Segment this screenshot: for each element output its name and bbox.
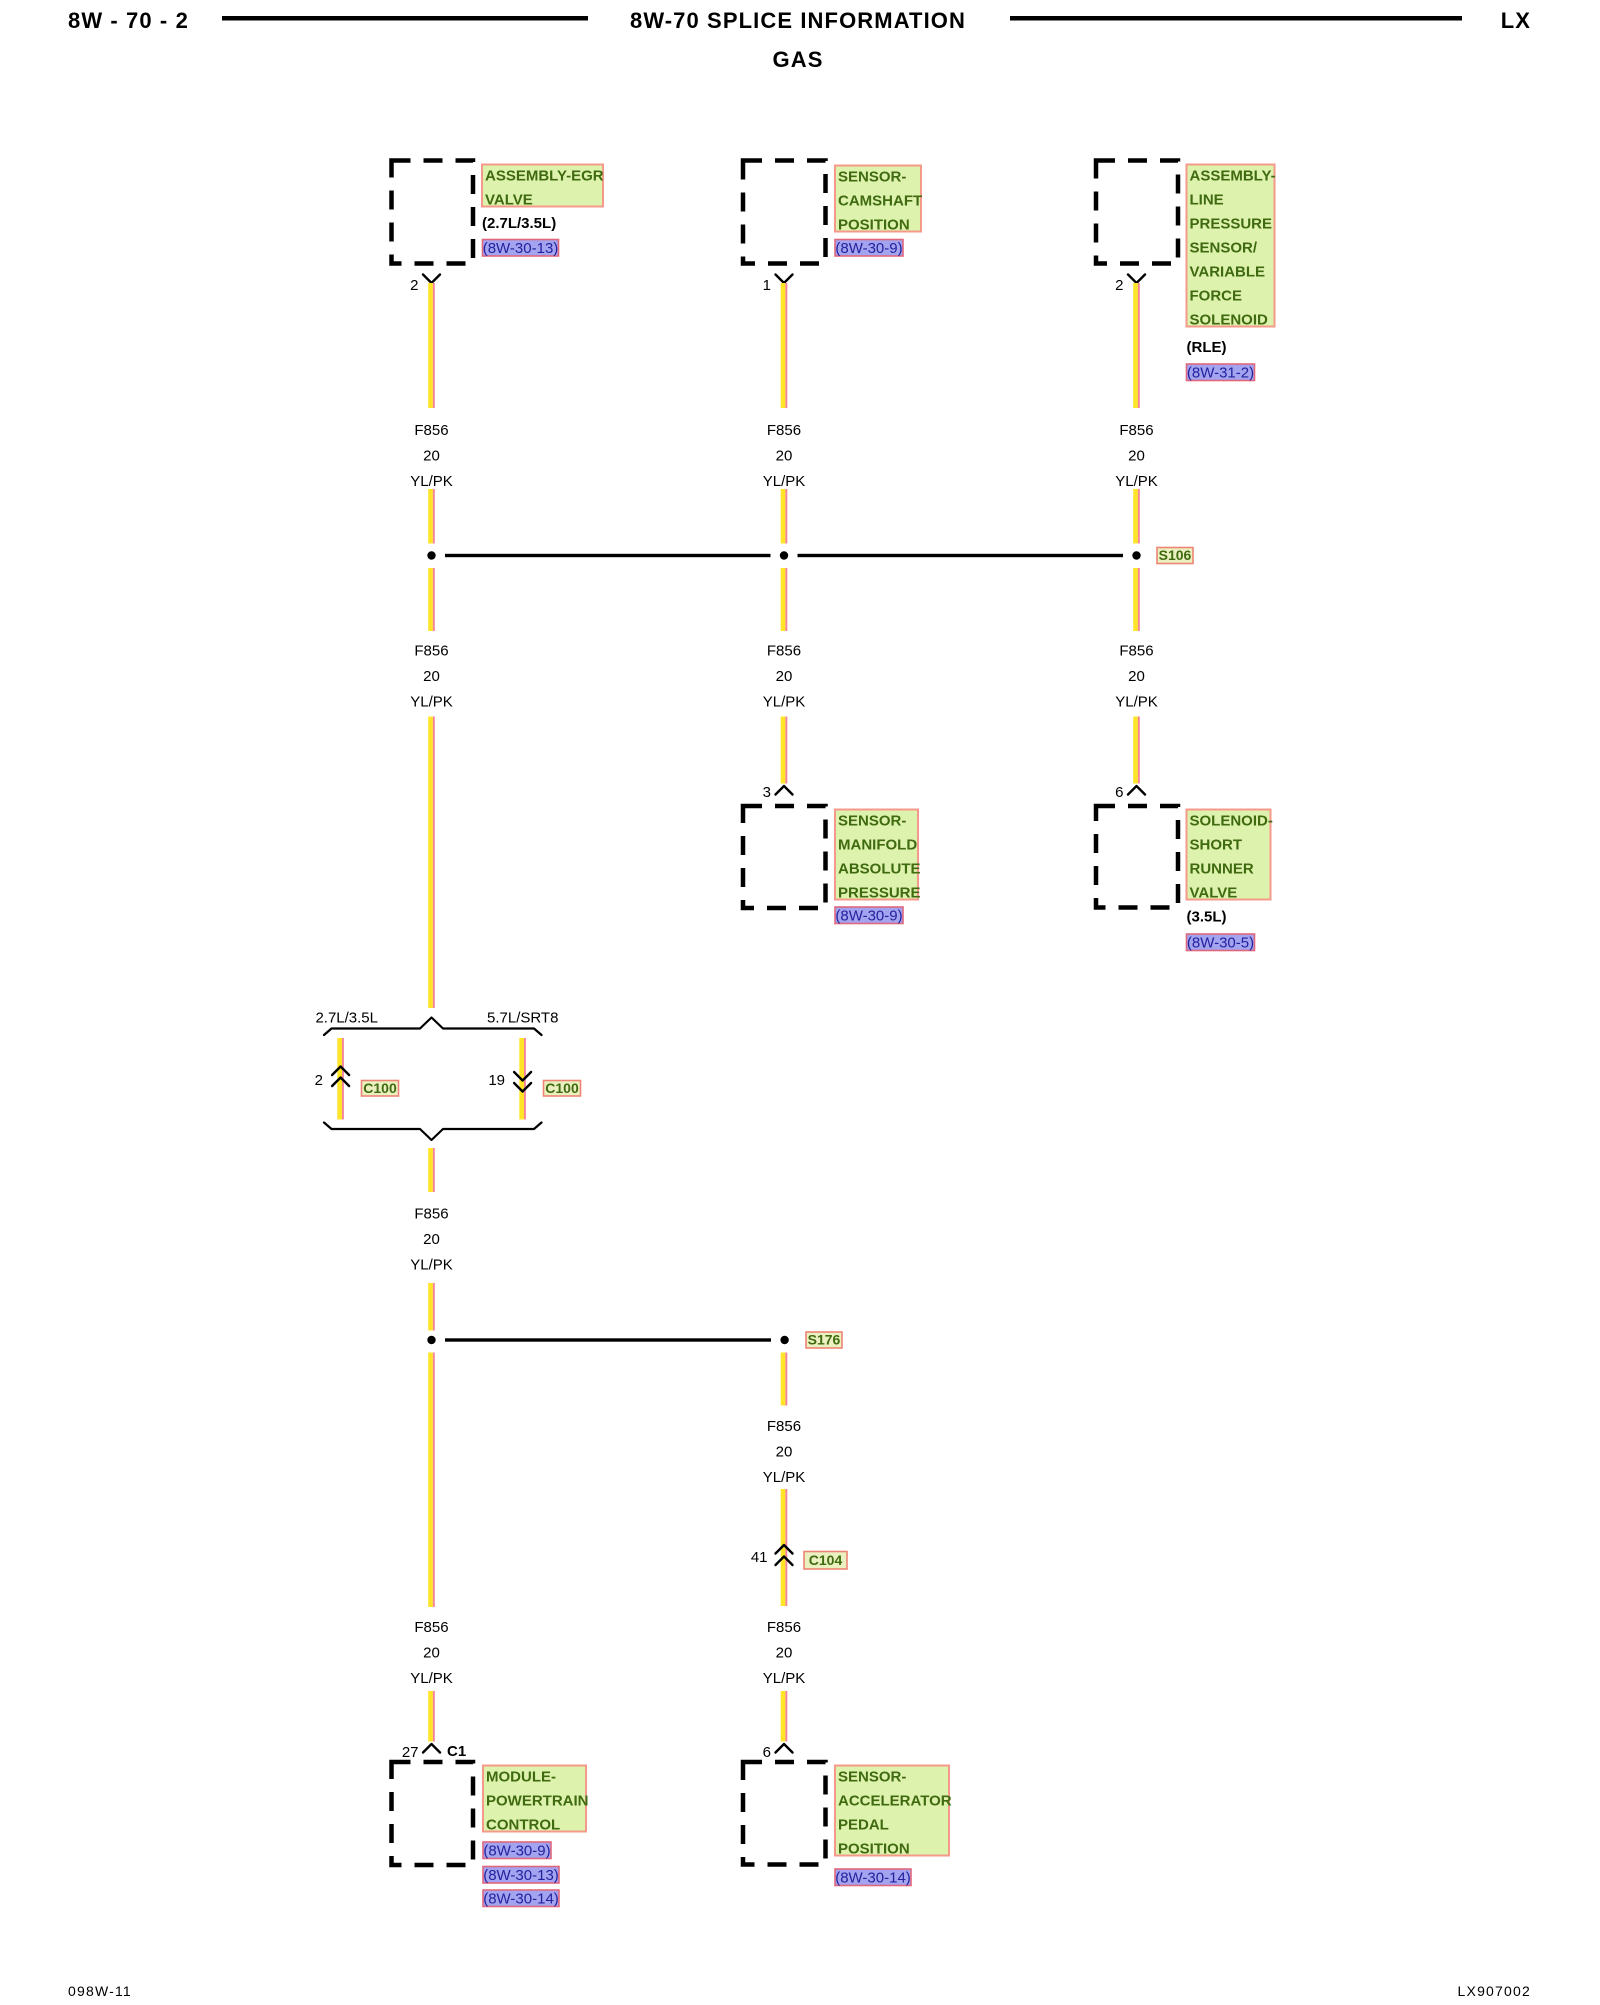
svg-text:ACCELERATOR: ACCELERATOR <box>838 1793 952 1810</box>
connector C100 right double chevron <box>514 1072 531 1092</box>
svg-text:ASSEMBLY-EGR: ASSEMBLY-EGR <box>485 168 604 185</box>
wire label col3 block2 <box>1115 643 1158 711</box>
svg-text:ASSEMBLY-: ASSEMBLY- <box>1190 168 1276 185</box>
svg-text:SOLENOID: SOLENOID <box>1190 312 1269 329</box>
svg-text:GAS: GAS <box>773 47 824 72</box>
svg-text:5.7L/SRT8: 5.7L/SRT8 <box>487 1010 558 1027</box>
svg-text:19: 19 <box>488 1072 505 1089</box>
reference chip 8W-30-9 MAP <box>835 907 903 925</box>
svg-text:SHORT: SHORT <box>1190 837 1243 854</box>
svg-text:SENSOR-: SENSOR- <box>838 169 906 186</box>
reference chip 8W-30-9 camshaft <box>835 240 903 258</box>
component label line pressure sensor <box>1187 165 1276 329</box>
svg-text:VALVE: VALVE <box>485 192 533 209</box>
wire label col1 block5 <box>410 1619 453 1687</box>
svg-text:6: 6 <box>1115 784 1123 801</box>
wire F856 col3 seg4 <box>1133 717 1140 784</box>
svg-text:2: 2 <box>410 277 418 294</box>
connector C104 double chevron <box>776 1545 793 1565</box>
reference chip 8W-30-5 <box>1187 934 1255 952</box>
svg-text:YL/PK: YL/PK <box>410 1670 453 1687</box>
brace split top <box>324 1018 542 1036</box>
connector label C100 right <box>544 1080 581 1096</box>
reference chip 8W-30-13 EGR <box>483 240 559 258</box>
wire label col1 block1 <box>410 422 453 490</box>
connector label C100 left <box>362 1080 399 1096</box>
svg-text:PRESSURE: PRESSURE <box>1190 216 1273 233</box>
splice label S176 <box>806 1332 842 1349</box>
svg-text:YL/PK: YL/PK <box>763 1469 806 1486</box>
connector box camshaft position sensor <box>743 161 826 264</box>
wire F856 col1 seg3 <box>428 568 435 631</box>
splice junction dot S176 left <box>427 1336 435 1344</box>
svg-text:FORCE: FORCE <box>1190 288 1243 305</box>
svg-text:F856: F856 <box>414 1619 448 1636</box>
component label MAP sensor <box>835 810 921 902</box>
wire label col1 block3 <box>410 1206 453 1274</box>
wire label col2 block4 <box>763 1418 806 1486</box>
svg-text:YL/PK: YL/PK <box>763 694 806 711</box>
connector box PCM <box>392 1762 474 1865</box>
component label APP sensor <box>835 1766 952 1858</box>
connector chevron PCM <box>423 1744 440 1753</box>
wire label col2 block2 <box>763 643 806 711</box>
splice junction dot col3 <box>1132 551 1140 559</box>
svg-text:F856: F856 <box>414 422 448 439</box>
wire F856 col3 seg1 <box>1133 283 1140 408</box>
svg-text:(RLE): (RLE) <box>1187 339 1227 356</box>
wire F856 col1 seg2 <box>428 489 435 544</box>
splice junction dot col2 <box>780 551 788 559</box>
svg-text:8W-70 SPLICE INFORMATION: 8W-70 SPLICE INFORMATION <box>630 8 966 33</box>
svg-text:(8W-30-14): (8W-30-14) <box>483 1891 559 1908</box>
connector chevron camshaft <box>776 275 793 284</box>
svg-text:27: 27 <box>402 1744 419 1761</box>
brace merge bottom <box>324 1123 542 1141</box>
svg-text:SENSOR-: SENSOR- <box>838 1769 906 1786</box>
connector box line pressure sensor <box>1096 161 1178 264</box>
splice junction dot S176 right <box>780 1336 788 1344</box>
svg-text:YL/PK: YL/PK <box>410 1257 453 1274</box>
svg-text:20: 20 <box>776 1444 793 1461</box>
svg-text:41: 41 <box>751 1549 768 1566</box>
svg-text:F856: F856 <box>1119 422 1153 439</box>
svg-text:20: 20 <box>776 448 793 465</box>
svg-text:20: 20 <box>423 668 440 685</box>
svg-text:POWERTRAIN: POWERTRAIN <box>486 1793 589 1810</box>
svg-text:VALVE: VALVE <box>1190 885 1238 902</box>
svg-text:MANIFOLD: MANIFOLD <box>838 837 917 854</box>
svg-text:20: 20 <box>1128 448 1145 465</box>
svg-text:20: 20 <box>1128 668 1145 685</box>
connector box MAP sensor <box>743 806 826 908</box>
svg-text:PEDAL: PEDAL <box>838 1817 889 1834</box>
splice junction dot col1 <box>427 551 435 559</box>
svg-text:C104: C104 <box>809 1552 843 1568</box>
svg-text:LINE: LINE <box>1190 192 1224 209</box>
svg-text:RUNNER: RUNNER <box>1190 861 1254 878</box>
svg-text:C100: C100 <box>545 1080 579 1096</box>
svg-text:YL/PK: YL/PK <box>1115 473 1158 490</box>
header rule right <box>1010 16 1462 21</box>
svg-text:F856: F856 <box>414 1206 448 1223</box>
svg-text:8W - 70 - 2: 8W - 70 - 2 <box>68 8 189 33</box>
wire F856 col1 seg4 long <box>428 717 435 1009</box>
connector chevron EGR <box>423 275 440 284</box>
reference chip 8W-31-2 <box>1187 364 1255 382</box>
svg-text:YL/PK: YL/PK <box>410 473 453 490</box>
svg-text:F856: F856 <box>767 1418 801 1435</box>
svg-text:F856: F856 <box>767 422 801 439</box>
svg-text:ABSOLUTE: ABSOLUTE <box>838 861 921 878</box>
reference chip 8W-30-14 APP <box>835 1869 911 1887</box>
svg-text:SENSOR-: SENSOR- <box>838 813 906 830</box>
header rule left <box>222 16 588 21</box>
connector chevron short runner valve <box>1128 786 1145 795</box>
svg-text:CAMSHAFT: CAMSHAFT <box>838 193 922 210</box>
connector box EGR valve <box>392 161 474 264</box>
svg-text:YL/PK: YL/PK <box>763 1670 806 1687</box>
svg-text:F856: F856 <box>767 643 801 660</box>
svg-text:F856: F856 <box>767 1619 801 1636</box>
svg-text:YL/PK: YL/PK <box>763 473 806 490</box>
connector label C104 <box>804 1552 847 1570</box>
svg-text:SOLENOID-: SOLENOID- <box>1190 813 1273 830</box>
svg-text:20: 20 <box>423 1645 440 1662</box>
svg-text:(8W-30-5): (8W-30-5) <box>1187 935 1254 952</box>
wire F856 col2 seg5 <box>781 1353 788 1406</box>
wire label col2 block6 <box>763 1619 806 1687</box>
svg-text:(8W-30-9): (8W-30-9) <box>835 908 902 925</box>
svg-text:20: 20 <box>776 1645 793 1662</box>
svg-text:(2.7L/3.5L): (2.7L/3.5L) <box>482 215 556 232</box>
svg-text:POSITION: POSITION <box>838 217 910 234</box>
wire label col2 block1 <box>763 422 806 490</box>
wire label col3 block1 <box>1115 422 1158 490</box>
wire F856 col1 seg7 long <box>428 1353 435 1608</box>
splice S176 bus line <box>445 1338 771 1341</box>
connector chevron line pressure <box>1128 275 1145 284</box>
component label camshaft position sensor <box>835 166 922 234</box>
connector C100 left double chevron <box>332 1067 349 1087</box>
wire F856 col2 seg6 <box>781 1489 788 1606</box>
wire F856 col2 seg3 <box>781 568 788 631</box>
wire branch left <box>337 1038 344 1120</box>
wire F856 col2 seg7 <box>781 1691 788 1742</box>
svg-text:(8W-30-14): (8W-30-14) <box>835 1870 911 1887</box>
svg-text:6: 6 <box>763 1744 771 1761</box>
wire F856 col1 seg8 <box>428 1691 435 1742</box>
svg-text:1: 1 <box>763 277 771 294</box>
svg-text:CONTROL: CONTROL <box>486 1817 560 1834</box>
svg-text:LX907002: LX907002 <box>1458 1983 1531 1999</box>
svg-text:S106: S106 <box>1159 547 1192 563</box>
svg-text:SENSOR/: SENSOR/ <box>1190 240 1258 257</box>
svg-text:POSITION: POSITION <box>838 1841 910 1858</box>
component label short runner valve <box>1187 810 1273 902</box>
svg-text:20: 20 <box>423 448 440 465</box>
svg-text:3: 3 <box>763 784 771 801</box>
wire branch right <box>519 1038 526 1120</box>
svg-text:(8W-30-9): (8W-30-9) <box>483 1843 550 1860</box>
svg-text:(8W-30-13): (8W-30-13) <box>483 1867 559 1884</box>
wire F856 col3 seg2 <box>1133 489 1140 544</box>
svg-text:2: 2 <box>1115 277 1123 294</box>
svg-text:(8W-30-9): (8W-30-9) <box>835 240 902 257</box>
svg-text:S176: S176 <box>808 1332 841 1348</box>
component label PCM <box>483 1766 589 1834</box>
svg-text:F856: F856 <box>1119 643 1153 660</box>
svg-text:20: 20 <box>776 668 793 685</box>
connector chevron MAP sensor <box>776 786 793 795</box>
svg-text:20: 20 <box>423 1231 440 1248</box>
svg-text:LX: LX <box>1501 8 1531 33</box>
svg-text:C100: C100 <box>363 1080 397 1096</box>
reference chip 8W-30-13 PCM <box>483 1867 559 1885</box>
wire F856 col1 seg1 <box>428 283 435 408</box>
svg-text:PRESSURE: PRESSURE <box>838 885 921 902</box>
component label EGR valve <box>482 165 604 209</box>
wire F856 col2 seg4 <box>781 717 788 784</box>
reference chip 8W-30-9 PCM <box>483 1842 551 1860</box>
svg-text:YL/PK: YL/PK <box>1115 694 1158 711</box>
svg-text:MODULE-: MODULE- <box>486 1769 556 1786</box>
wire label col1 block2 <box>410 643 453 711</box>
svg-text:2: 2 <box>315 1072 323 1089</box>
svg-text:YL/PK: YL/PK <box>410 694 453 711</box>
connector box APP sensor <box>743 1762 826 1865</box>
svg-text:(8W-31-2): (8W-31-2) <box>1187 365 1254 382</box>
wire F856 col1 seg5 <box>428 1148 435 1192</box>
svg-text:098W-11: 098W-11 <box>68 1983 132 1999</box>
wire F856 col2 seg1 <box>781 283 788 408</box>
svg-text:VARIABLE: VARIABLE <box>1190 264 1266 281</box>
connector box short runner valve <box>1096 806 1178 908</box>
svg-text:C1: C1 <box>447 1743 466 1760</box>
wire F856 col2 seg2 <box>781 489 788 544</box>
wire F856 col1 seg6 <box>428 1283 435 1331</box>
wire F856 col3 seg3 <box>1133 568 1140 631</box>
splice S106 bus line <box>445 554 1123 557</box>
svg-text:2.7L/3.5L: 2.7L/3.5L <box>315 1010 378 1027</box>
svg-text:F856: F856 <box>414 643 448 660</box>
svg-text:(3.5L): (3.5L) <box>1187 909 1227 926</box>
splice label S106 <box>1157 547 1193 564</box>
reference chip 8W-30-14 PCM <box>483 1890 559 1908</box>
connector chevron APP sensor <box>776 1744 793 1753</box>
svg-text:(8W-30-13): (8W-30-13) <box>483 240 559 257</box>
